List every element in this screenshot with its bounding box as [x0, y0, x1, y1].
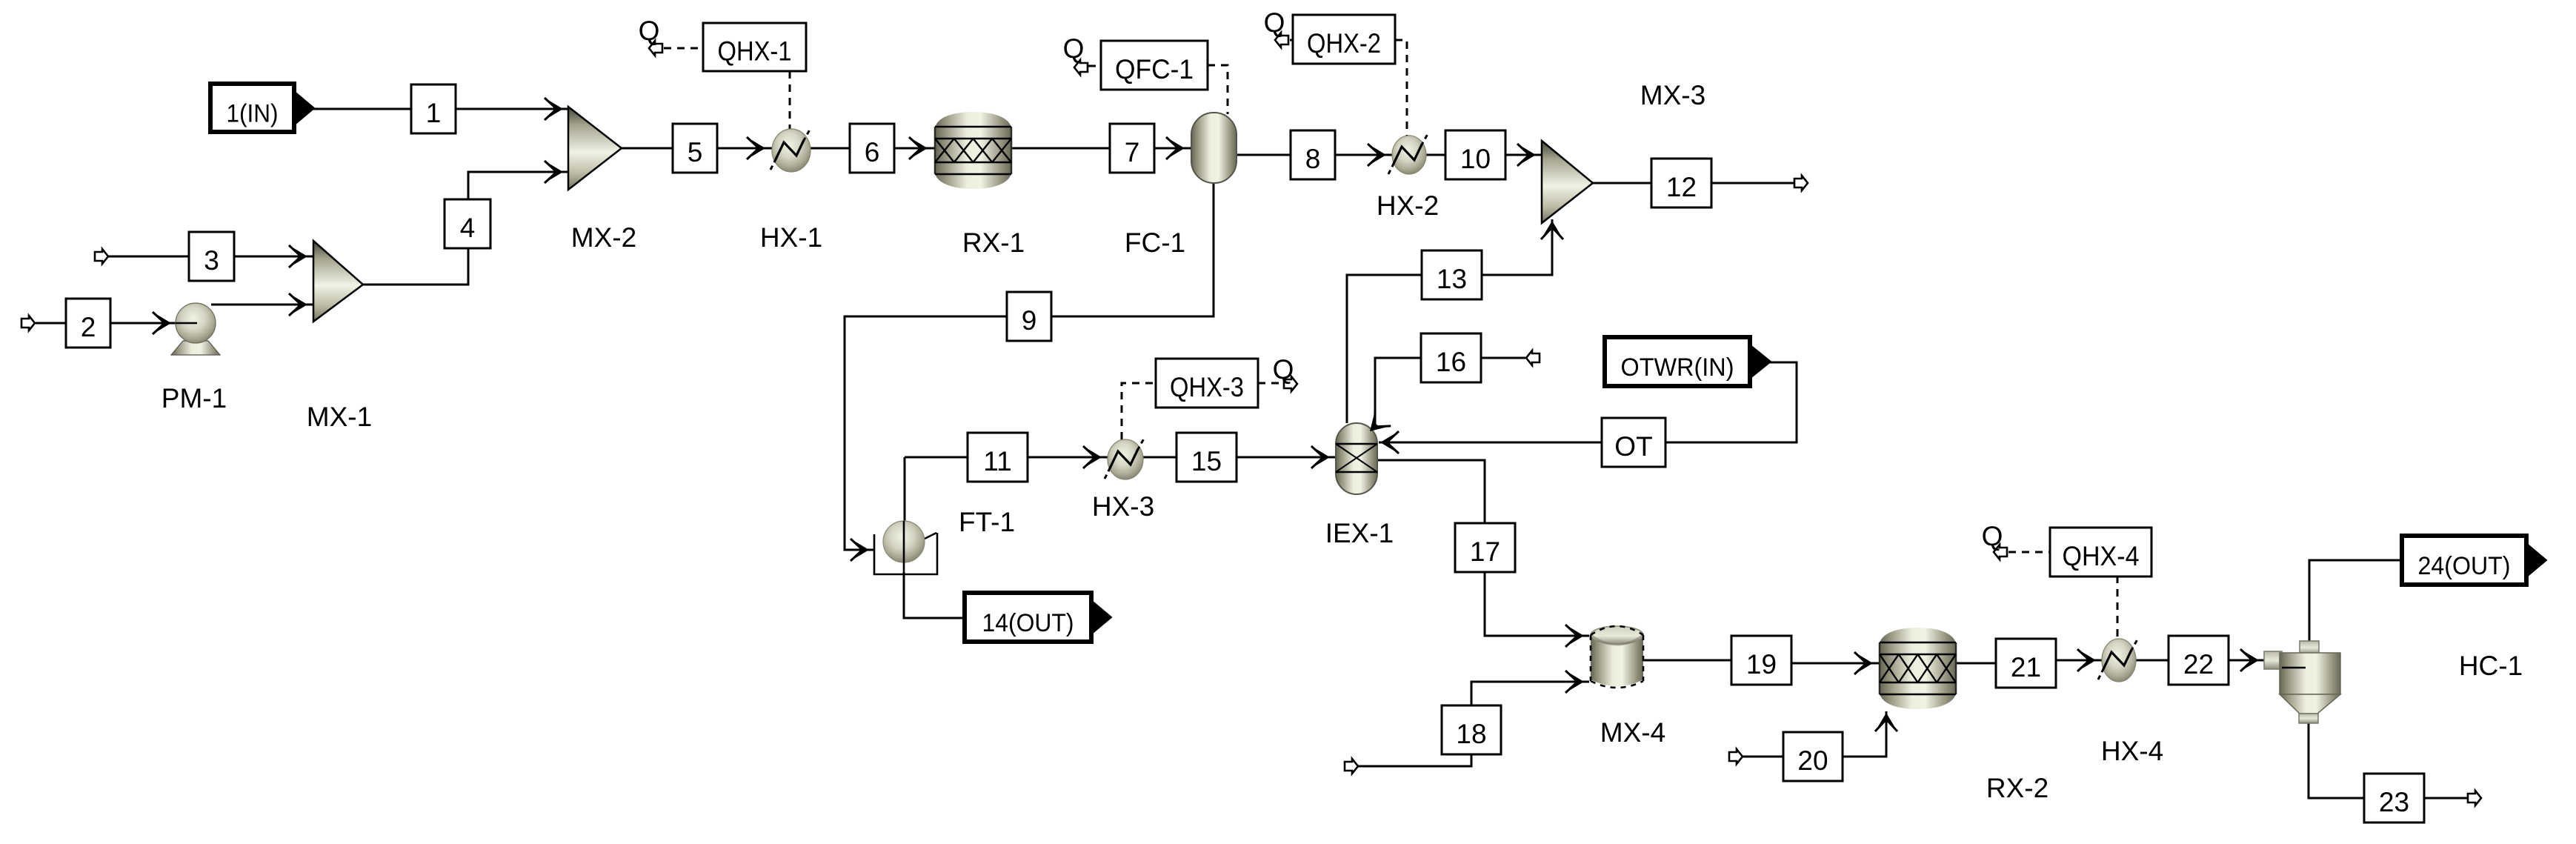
- svg-text:MX-1: MX-1: [307, 402, 372, 432]
- svg-text:FT-1: FT-1: [959, 507, 1015, 537]
- svg-text:HC-1: HC-1: [2459, 651, 2523, 681]
- svg-text:5: 5: [688, 137, 703, 167]
- svg-text:6: 6: [865, 137, 880, 167]
- svg-text:OT: OT: [1614, 431, 1652, 462]
- svg-text:RX-1: RX-1: [962, 227, 1025, 258]
- svg-text:15: 15: [1191, 446, 1222, 476]
- svg-text:20: 20: [1797, 745, 1828, 776]
- svg-text:11: 11: [983, 446, 1011, 476]
- svg-text:10: 10: [1460, 144, 1491, 174]
- svg-text:19: 19: [1746, 649, 1777, 679]
- svg-text:PM-1: PM-1: [162, 383, 227, 413]
- svg-text:1: 1: [426, 98, 442, 128]
- svg-text:Q: Q: [1273, 354, 1294, 385]
- svg-text:12: 12: [1666, 172, 1697, 202]
- svg-text:OTWR(IN): OTWR(IN): [1621, 353, 1734, 382]
- svg-text:22: 22: [2183, 649, 2214, 679]
- svg-text:17: 17: [1470, 536, 1500, 567]
- svg-text:21: 21: [2011, 652, 2041, 682]
- svg-text:8: 8: [1305, 144, 1321, 174]
- svg-text:24(OUT): 24(OUT): [2418, 552, 2511, 580]
- svg-text:23: 23: [2379, 787, 2409, 817]
- svg-text:HX-4: HX-4: [2101, 736, 2163, 766]
- svg-text:14(OUT): 14(OUT): [982, 609, 1074, 637]
- svg-text:Q: Q: [1063, 33, 1085, 64]
- svg-text:QFC-1: QFC-1: [1115, 54, 1194, 84]
- svg-text:1(IN): 1(IN): [227, 100, 279, 128]
- svg-text:QHX-1: QHX-1: [718, 36, 792, 67]
- svg-text:QHX-4: QHX-4: [2063, 541, 2140, 571]
- svg-text:HX-3: HX-3: [1092, 491, 1154, 522]
- svg-text:13: 13: [1437, 264, 1467, 294]
- svg-text:Q: Q: [1264, 7, 1285, 38]
- svg-text:16: 16: [1436, 347, 1466, 377]
- svg-text:MX-3: MX-3: [1640, 80, 1705, 110]
- svg-text:18: 18: [1456, 719, 1486, 749]
- svg-text:4: 4: [460, 213, 476, 243]
- svg-text:FC-1: FC-1: [1125, 227, 1185, 258]
- svg-text:Q: Q: [639, 16, 660, 46]
- svg-text:RX-2: RX-2: [1986, 773, 2049, 803]
- svg-text:7: 7: [1125, 137, 1140, 167]
- svg-text:Q: Q: [1982, 521, 2003, 551]
- svg-text:HX-2: HX-2: [1377, 190, 1439, 221]
- svg-text:QHX-3: QHX-3: [1170, 372, 1244, 402]
- svg-text:MX-4: MX-4: [1600, 717, 1665, 748]
- svg-text:2: 2: [81, 312, 96, 342]
- svg-text:QHX-2: QHX-2: [1307, 28, 1381, 59]
- svg-text:MX-2: MX-2: [571, 222, 636, 253]
- svg-text:HX-1: HX-1: [760, 222, 822, 253]
- svg-text:9: 9: [1022, 305, 1037, 336]
- svg-text:3: 3: [204, 245, 219, 276]
- svg-text:IEX-1: IEX-1: [1325, 518, 1394, 548]
